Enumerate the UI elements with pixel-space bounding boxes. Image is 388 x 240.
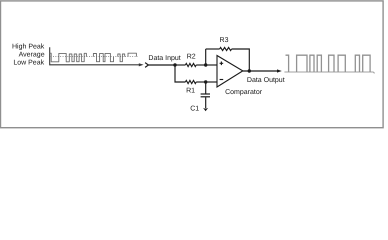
average dotted line [51, 56, 138, 58]
wire feedback right segment down to output node D [232, 49, 250, 71]
ground arrow [203, 108, 208, 111]
wire op-amp output to arrow [243, 70, 278, 72]
wire R2 to node B [196, 64, 206, 66]
resistor R1 [185, 80, 196, 83]
output digital waveform baseline [284, 72, 374, 73]
wire node B to op-amp plus input [206, 64, 217, 66]
wire feedback left segment [206, 48, 220, 50]
wire C1 to ground [205, 97, 207, 108]
wire data input to node A [148, 64, 175, 66]
capacitor C1 [201, 94, 210, 97]
resistor R2 [185, 63, 196, 66]
svg-text:C1: C1 [190, 105, 199, 112]
svg-text:Comparator: Comparator [225, 89, 263, 96]
wire node C to op-amp minus input [206, 81, 217, 83]
label Comparator [225, 89, 263, 96]
node C junction dot [204, 80, 207, 83]
output arrowhead [277, 69, 282, 72]
label R2 [187, 53, 196, 60]
node A junction dot [173, 63, 176, 66]
input chevron arrow [145, 63, 148, 68]
wire node A to R2 [175, 64, 185, 66]
svg-text:R2: R2 [187, 53, 196, 60]
label Data Output [247, 77, 285, 84]
label R3 [220, 37, 229, 44]
svg-text:Average: Average [19, 51, 45, 58]
wire node C down to C1 [205, 82, 207, 94]
svg-text:R1: R1 [186, 87, 195, 94]
svg-text:Data Input: Data Input [148, 55, 180, 62]
resistor R3 [220, 47, 232, 50]
label Average [19, 51, 45, 58]
input data waveform [50, 53, 137, 62]
wire R1 to node C [196, 81, 206, 83]
svg-text:Data Output: Data Output [247, 77, 285, 84]
wire node A down to R1 row [175, 65, 185, 82]
label Low Peak [13, 58, 44, 66]
label R1 [186, 87, 195, 94]
op-amp U1 comparator triangle [217, 56, 243, 88]
label C1 [190, 105, 199, 112]
label Data Input [148, 55, 180, 62]
svg-text:R3: R3 [220, 37, 229, 44]
svg-text:High Peak: High Peak [12, 43, 45, 51]
output digital waveform pulses [286, 55, 371, 72]
node B junction dot [204, 63, 207, 66]
node D junction dot [248, 69, 251, 72]
wire node B up to feedback row [205, 49, 207, 65]
svg-text:Low Peak: Low Peak [13, 58, 44, 66]
label High Peak [12, 43, 45, 51]
input waveform axis [50, 47, 144, 66]
